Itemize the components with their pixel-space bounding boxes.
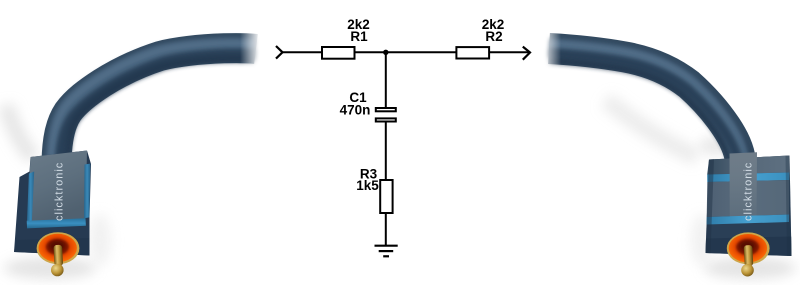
value label 2k2 (R2): [482, 17, 505, 32]
ground: [375, 246, 398, 257]
lower front shading: [706, 237, 792, 257]
connector block: [14, 151, 91, 256]
svg-text:clicktronic: clicktronic: [54, 162, 66, 221]
value label 2k2 (R1): [347, 17, 370, 32]
connector shadow: [704, 257, 796, 279]
label R3: [360, 166, 378, 181]
block silhouette (navy base): [706, 156, 792, 257]
right cable: top highlight: [549, 45, 741, 158]
node junction: [383, 50, 388, 55]
stripe bottom (front): [27, 218, 86, 228]
stripe upper: [707, 173, 789, 183]
fade out at right cable cut end: [529, 18, 561, 78]
svg-text:470n: 470n: [340, 102, 371, 117]
svg-text:R1: R1: [350, 29, 368, 44]
wire R3 to ground: [385, 213, 387, 246]
connector shadow: [4, 257, 96, 279]
stripe right: [84, 164, 90, 219]
connector block: [706, 152, 792, 256]
stripe left: [27, 172, 34, 224]
stripe lower: [707, 215, 790, 225]
right cable: lower shade: [548, 53, 740, 166]
value label 470n: [340, 102, 371, 117]
capacitor C1: [376, 108, 396, 122]
label C1: [349, 90, 367, 105]
right cable: dark base: [549, 49, 741, 162]
right cable: mid tone: [549, 47, 741, 160]
RCA plug: [727, 232, 770, 276]
shadow under right cable arc: [606, 100, 697, 157]
resistor R2: [456, 47, 489, 58]
wire R2 to output: [489, 51, 528, 53]
label R2: [485, 29, 502, 44]
side edge shading: [706, 159, 715, 253]
output arrow: [523, 47, 530, 60]
block silhouette (navy base): [14, 151, 91, 256]
resistor R3: [380, 180, 392, 213]
right cable: bottom edge darkening: [549, 52, 741, 165]
wire node to C1: [385, 52, 387, 108]
top band: [707, 156, 789, 175]
top face (slate gray with label): [28, 151, 88, 222]
resistor R1: [322, 47, 355, 59]
lower front shading: [14, 238, 90, 256]
wire R1 to node: [355, 51, 456, 53]
input terminal arrow: [276, 46, 283, 59]
wire input to R1: [283, 51, 323, 53]
svg-text:clicktronic: clicktronic: [743, 162, 755, 221]
svg-text:1k5: 1k5: [356, 178, 379, 193]
RCA plug: [37, 232, 80, 276]
entry tongue (top face sliver): [730, 152, 758, 217]
wire C1 to R3: [385, 122, 387, 181]
label R1: [350, 29, 368, 44]
label band: [707, 180, 790, 217]
cable: [6, 20, 273, 169]
svg-text:R2: R2: [485, 29, 502, 44]
value label 1k5: [356, 178, 379, 193]
soft shade above right connector top-left: [699, 137, 733, 155]
